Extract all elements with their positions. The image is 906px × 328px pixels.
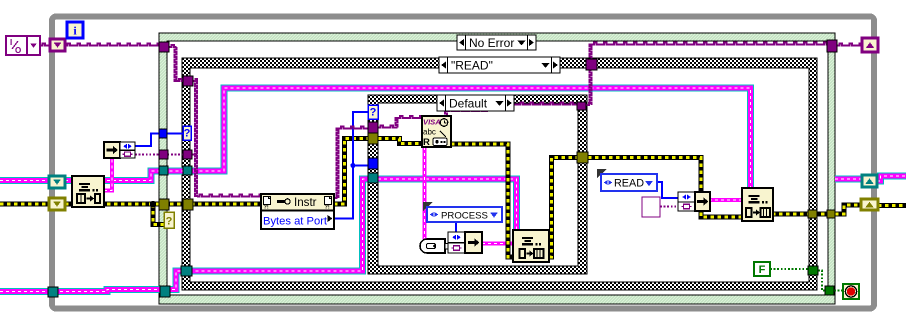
svg-text:R: R [423,137,430,148]
svg-text:PROCESS: PROCESS [441,210,488,221]
svg-text:"READ": "READ" [451,59,493,73]
svg-text:I: I [10,38,12,47]
svg-text:O: O [15,46,21,55]
svg-text:READ: READ [614,178,644,190]
svg-text:?: ? [184,128,191,140]
svg-text:Bytes at Port: Bytes at Port [263,216,328,228]
svg-text:No Error: No Error [469,36,514,50]
svg-text:VISA: VISA [423,118,441,127]
svg-text:Default: Default [449,97,488,111]
svg-text:?!: ?! [264,205,269,211]
svg-text:abc: abc [423,128,436,137]
svg-text:Instr: Instr [294,196,317,209]
svg-text:?!: ?! [325,205,330,211]
svg-text:F: F [759,264,766,276]
svg-text:?: ? [370,107,377,119]
svg-text:?: ? [166,216,173,228]
